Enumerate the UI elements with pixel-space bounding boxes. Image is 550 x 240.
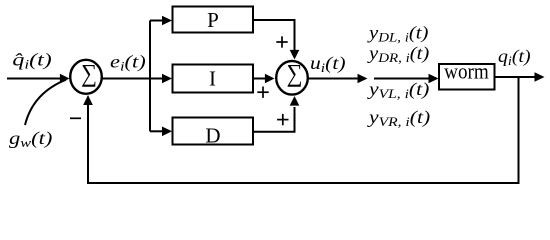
svg-text:∑: ∑	[287, 60, 303, 87]
svg-text:yVR, i(t): yVR, i(t)	[367, 108, 430, 130]
svg-text:I: I	[209, 67, 216, 91]
svg-text:yDL, i(t): yDL, i(t)	[367, 24, 429, 46]
svg-text:yDR, i(t): yDR, i(t)	[367, 44, 429, 66]
svg-text:gw(t): gw(t)	[9, 129, 53, 151]
svg-text:worm: worm	[444, 60, 489, 83]
svg-text:qi(t): qi(t)	[498, 47, 531, 68]
svg-text:P: P	[207, 8, 219, 32]
svg-text:q̂i(t): q̂i(t)	[12, 49, 51, 72]
svg-text:yVL, i(t): yVL, i(t)	[367, 80, 429, 102]
svg-text:ei(t): ei(t)	[110, 52, 146, 74]
svg-text:ui(t): ui(t)	[310, 54, 346, 76]
svg-text:∑: ∑	[81, 60, 97, 87]
svg-text:D: D	[205, 124, 220, 148]
